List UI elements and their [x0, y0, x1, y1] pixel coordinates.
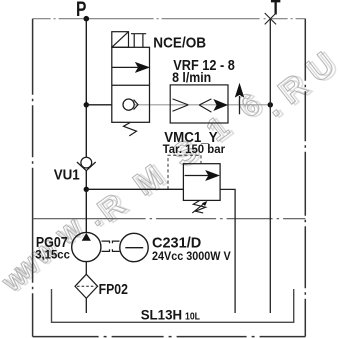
- solenoid coil symbol: [112, 32, 129, 48]
- solenoid valve U1 NCE/OB body: [112, 47, 150, 122]
- wire: junction C down to pump: [85, 189, 87, 232]
- svg-text:8 l/min: 8 l/min: [172, 70, 211, 85]
- flow regulator VRF body: [170, 85, 228, 123]
- relief valve arrow: [185, 175, 209, 177]
- shaft coupling: [102, 241, 120, 251]
- svg-text:SL13H: SL13H: [141, 308, 182, 323]
- motor C231/D: [120, 233, 148, 261]
- svg-text:NCE/OB: NCE/OB: [153, 34, 206, 51]
- valve open-position arrow: [112, 66, 138, 68]
- wire: T line down into tank: [269, 19, 271, 313]
- flow direction arrow to T: [239, 96, 241, 114]
- pump PG07: [72, 232, 101, 261]
- check valve VU1: [81, 157, 92, 168]
- wire: VU1 to junction C: [85, 171, 87, 190]
- node T (X mark on boundary): [265, 13, 276, 24]
- relief valve VMC1 body: [183, 164, 220, 201]
- svg-text:C231/D: C231/D: [152, 234, 201, 251]
- tank SL13H (open-top reservoir): [52, 289, 294, 322]
- wire: pump suction to filter: [85, 262, 87, 275]
- watermark: [0, 44, 338, 299]
- node C (junction dot pump line / relief line): [84, 187, 89, 192]
- wire: junction A to valve inlet: [86, 104, 112, 106]
- node P (junction dot on boundary): [84, 16, 90, 22]
- node B (junction dot at T line): [268, 102, 273, 107]
- relief valve pilot line (dashed): [168, 155, 201, 189]
- wire: junction C to relief valve inlet: [86, 188, 183, 190]
- relief valve adjustable spring: [192, 200, 205, 213]
- valve closed-position check (poppet): [123, 99, 134, 110]
- svg-text:FP02: FP02: [99, 282, 128, 298]
- svg-text:Tar. 150 bar: Tar. 150 bar: [163, 144, 226, 156]
- manual override symbol: [131, 34, 146, 48]
- valve spring: [124, 122, 137, 135]
- svg-text:10L: 10L: [185, 311, 200, 323]
- node A (junction dot P line / valve line): [84, 102, 89, 107]
- svg-text:24Vcc 3000W V: 24Vcc 3000W V: [152, 251, 231, 263]
- flow regulator restrictor cones: [173, 99, 212, 112]
- wire: relief valve outlet to drain: [220, 189, 235, 313]
- wire: filter down into tank: [85, 298, 87, 313]
- wire: P line down to junction A: [85, 19, 87, 105]
- svg-text:3,15cc: 3,15cc: [35, 248, 70, 262]
- flow regulator arrow head: [214, 100, 227, 111]
- wire: gray line valve outlet through VRF to T line: [134, 104, 270, 106]
- filter FP02: [75, 274, 98, 298]
- wire: junction A down to check valve VU1: [85, 105, 87, 157]
- divider between manifold and reservoir (dash-dot): [33, 218, 306, 220]
- svg-text:VU1: VU1: [54, 168, 80, 184]
- enclosure frame (manifold boundary, dash-dot): [33, 19, 306, 337]
